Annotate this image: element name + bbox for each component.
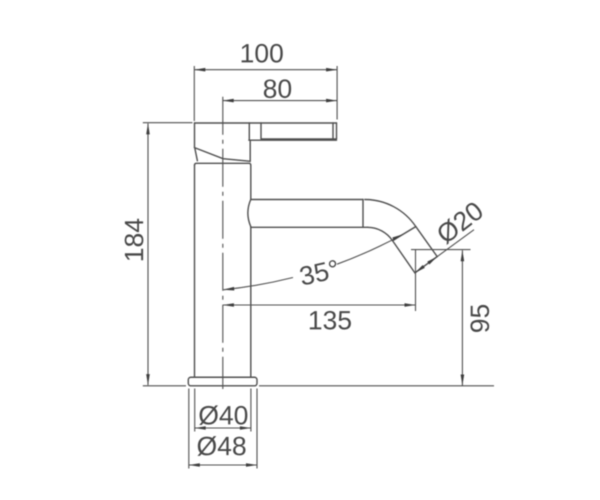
arrow Ø40 left [195,426,206,430]
label 135 [310,311,351,330]
arrow 35 arc left [223,287,234,292]
dim 35 arc right part [337,234,403,264]
lever tail sliver [195,149,198,161]
arrow 135 left [223,303,234,307]
label 80 [264,79,291,98]
dim Ø48 line [189,464,257,466]
dim 95 bottom extension / mounting line [259,385,494,387]
lever right end [336,123,338,139]
label 184 [125,219,144,260]
lever boss step line [249,139,337,141]
body right edge lower [250,227,252,378]
head left edge [194,123,196,148]
dim 95 line [461,250,463,385]
spout top edge [251,199,363,201]
dim 135 line [223,304,416,306]
dim 100/80 right extension [336,66,338,120]
lever end cap inner line [332,123,334,139]
label 95 [470,305,489,332]
label D48 [197,436,245,456]
faucet lever top edge [195,122,337,124]
body right edge upper [250,165,252,199]
arrow Ø48 right [246,463,257,467]
base flange [188,377,257,386]
lever bottom edge [261,138,337,140]
dim Ø40 line [195,427,251,429]
arrow 35 arc right [392,233,403,241]
dim 184 line [147,123,149,385]
head right edge upper [248,123,250,140]
label D40 [199,405,247,425]
aerator cap outline [393,227,438,273]
dim Ø20 line [415,230,474,273]
arrow 80 left [223,99,234,103]
dim 80 line [223,100,337,102]
head right edge lower [249,141,251,162]
spout inner bend arc [368,227,393,240]
arrow 135 right [405,303,416,307]
spout root seam arc [248,199,251,226]
centerline [222,97,224,389]
body top joint line [195,163,251,165]
dim 184 bottom extension [143,385,186,387]
dim 100 line [194,69,337,71]
arrow 95 top [461,250,465,261]
label D20 [435,200,485,245]
head bottom diagonal [195,148,250,162]
arrow 184 top [146,123,150,134]
dim Ø40 right extension [250,389,252,432]
spout outer bend arc [365,200,416,227]
dim 35 arc [223,278,293,290]
dim 100 left extension [193,66,195,121]
lever left cap line [260,123,262,139]
arrow Ø20 at C [427,255,438,264]
label 35deg [299,259,340,285]
arrow 184 bottom [146,374,150,385]
label 100 [242,44,283,63]
arrow Ø20 at D [414,265,425,274]
spout bottom edge [251,226,368,228]
arrow Ø40 right [240,426,251,430]
arrow Ø48 left [189,463,200,467]
spout joint ring [362,200,364,228]
arrow 95 bottom [461,375,465,386]
dim 95 top extension [411,249,471,251]
dim 135 right extension [415,250,417,311]
body left edge [194,165,196,377]
dim 184 top extension [143,122,193,124]
dim Ø48 left extension [188,389,190,469]
arrow 100 right [326,68,337,72]
dim Ø40 left extension [194,389,196,432]
dim Ø48 right extension [256,389,258,469]
arrow 80 right [326,99,337,103]
arrow 100 left [194,68,205,72]
